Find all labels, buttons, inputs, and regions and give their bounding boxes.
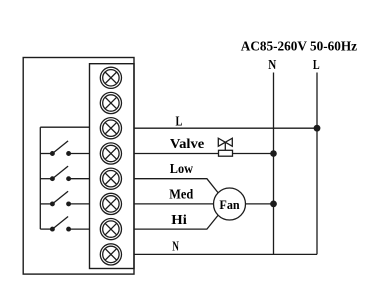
- thermostat body outline: [23, 58, 134, 275]
- terminal 8 (N): [100, 244, 121, 265]
- wire: Low line to fan: [134, 179, 218, 193]
- wire: Hi line to fan: [134, 215, 218, 229]
- wire: switch common vertical bus: [39, 127, 41, 229]
- valve symbol: [218, 138, 232, 156]
- svg-text:N: N: [172, 240, 179, 255]
- terminal 4 (Valve): [100, 143, 121, 164]
- terminal 6 (Med): [100, 193, 121, 214]
- junction dot valve-N: [270, 150, 277, 157]
- svg-text:Fan: Fan: [219, 197, 240, 212]
- wire: valve line right segment to N: [233, 153, 274, 155]
- junction dot L: [314, 125, 321, 132]
- svg-text:AC85-260V 50-60Hz: AC85-260V 50-60Hz: [241, 40, 357, 55]
- switch 1 (valve): [40, 141, 70, 155]
- switch 3 (med): [40, 191, 70, 205]
- wire: mains L vertical: [316, 73, 318, 255]
- wire: mains N vertical: [273, 73, 275, 255]
- fan motor: [214, 188, 246, 220]
- svg-text:Low: Low: [170, 162, 194, 177]
- switch 2 (low): [40, 166, 70, 180]
- svg-text:L: L: [176, 115, 183, 130]
- wire: N line (terminal 8 to mains): [134, 253, 317, 255]
- wire: valve line left segment: [134, 153, 219, 155]
- wire: fan to N vertical: [246, 203, 274, 205]
- terminal 5 (Low): [100, 168, 121, 189]
- svg-text:L: L: [313, 58, 320, 73]
- terminal 1: [100, 67, 121, 88]
- wire: switch 1 to terminal 4: [69, 153, 90, 155]
- svg-text:Hi: Hi: [171, 213, 187, 228]
- junction dot fan-N: [270, 201, 277, 208]
- terminal block outline: [90, 64, 135, 269]
- terminal 7 (Hi): [100, 219, 121, 240]
- wire: switch 2 to terminal 5: [69, 178, 90, 180]
- terminal 2: [100, 92, 121, 113]
- wire: switch common bus to terminal 3: [40, 126, 89, 128]
- wire: switch 4 to terminal 7: [69, 228, 90, 230]
- switch 4 (hi): [40, 217, 70, 231]
- wire: Med line to fan: [134, 203, 214, 205]
- svg-text:N: N: [268, 58, 276, 73]
- wire: L line (terminal 3 to mains L): [134, 127, 317, 129]
- svg-text:Med: Med: [169, 187, 193, 202]
- svg-text:Valve: Valve: [170, 137, 204, 152]
- terminal 3 (L): [100, 118, 121, 139]
- wire: switch 3 to terminal 6: [69, 203, 90, 205]
